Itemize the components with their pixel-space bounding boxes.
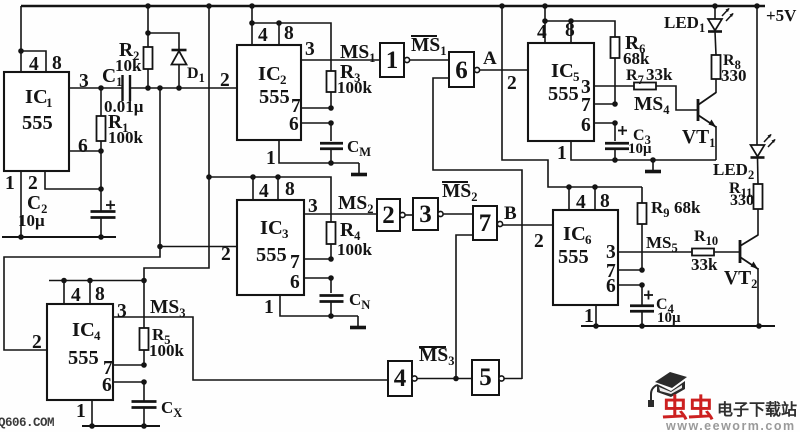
wire trigger to IC4 pin2 (4, 247, 160, 351)
svg-text:100k: 100k (337, 78, 373, 97)
svg-text:7: 7 (290, 252, 300, 273)
svg-text:4: 4 (258, 25, 268, 46)
svg-text:IC: IC (563, 223, 586, 245)
svg-text:A: A (483, 48, 497, 69)
wire IC4 pin7 (113, 364, 144, 366)
wire IC5 pin1/ground/VT1 emitter (571, 141, 716, 160)
ground rail of IC4 (82, 425, 160, 427)
svg-text:33k: 33k (691, 255, 718, 274)
resistor R10 33k (horizontal) (692, 249, 714, 256)
ground rail of IC1 (2, 236, 116, 238)
wire IC5 pin3 (594, 85, 634, 87)
svg-text:4: 4 (394, 365, 407, 392)
resistor R8 330 (712, 55, 721, 79)
wire IC1 pin2 (45, 171, 101, 189)
wire IC1 pin3 output (69, 87, 122, 89)
wire pin8 bracket (21, 51, 46, 72)
ground rail of IC6 (581, 325, 775, 327)
svg-text:2: 2 (507, 73, 517, 94)
gate 3 (inverter) (413, 198, 438, 230)
wire pin4 drop (20, 51, 22, 72)
node pin3/R1 (98, 85, 104, 91)
diode D1 (172, 49, 187, 52)
IC3 555 timer (237, 200, 304, 295)
gate 7 (NAND RS) (473, 206, 497, 240)
svg-text:2: 2 (32, 332, 42, 353)
node: rail junction dots (145, 3, 151, 9)
gate 4 (inverter) (388, 361, 412, 396)
svg-text:8: 8 (565, 20, 575, 41)
wire IC3 pin6 (304, 277, 331, 279)
wire R1 node down to C2 (100, 151, 102, 211)
svg-text:1: 1 (76, 401, 86, 422)
wire IC1 pins 4/8 to +5V rail (20, 6, 22, 51)
svg-text:IC: IC (72, 319, 95, 341)
svg-text:100k: 100k (149, 341, 185, 360)
svg-text:6: 6 (290, 272, 300, 293)
resistor R5 100k (143, 281, 145, 329)
svg-text:IC: IC (551, 60, 574, 82)
wire gate5 out to feedback riser (504, 378, 522, 380)
capacitor CM (330, 123, 332, 141)
svg-text:3: 3 (282, 226, 289, 241)
svg-text:2: 2 (28, 173, 38, 194)
wire gate7 2nd input from gate4 output (456, 235, 473, 379)
wire IC4 pin1 (91, 400, 93, 426)
trigger node wire (C1/R2/D1 to IC2 pin2) (148, 87, 237, 89)
resistor R2 10k (144, 47, 153, 69)
svg-text:6: 6 (102, 375, 112, 396)
transistor VT2 (739, 240, 742, 263)
wire gate4 out MS3bar (417, 378, 472, 380)
resistor R6 68k (611, 37, 620, 58)
svg-text:3: 3 (305, 39, 315, 60)
svg-text:10μ: 10μ (628, 141, 652, 157)
capacitor CX (143, 382, 145, 401)
wire IC6 pin7 (618, 269, 642, 271)
wire VT2 collector to R11 (757, 209, 759, 236)
svg-text:1: 1 (584, 306, 594, 327)
svg-text:2: 2 (534, 231, 544, 252)
wire node A to IC5 pin2 (480, 69, 528, 71)
wire gate3 out MS2bar (443, 213, 473, 215)
transistor VT1 (697, 99, 700, 121)
svg-text:IC: IC (258, 63, 281, 85)
svg-text:1: 1 (264, 297, 274, 318)
svg-text:6: 6 (78, 136, 88, 157)
svg-text:5: 5 (573, 69, 580, 84)
ground (IC2/CM) (331, 162, 359, 164)
svg-text:10μ: 10μ (18, 211, 45, 230)
LED1 (714, 6, 716, 19)
wire to IC3 pin2 (160, 246, 237, 248)
svg-text:www.eeworm.com: www.eeworm.com (665, 419, 796, 432)
capacitor C3 10u (614, 123, 616, 141)
svg-text:Q606.COM: Q606.COM (0, 416, 54, 430)
wire trigger node down to IC3 pin2 (159, 88, 161, 247)
wire gate6 2nd input from gate5 (433, 78, 522, 379)
wire to D1 top (148, 33, 179, 50)
svg-text:B: B (504, 203, 517, 224)
IC2 555 timer (237, 45, 301, 140)
wire IC3 4/8 rail (209, 177, 331, 222)
svg-text:1: 1 (46, 95, 53, 110)
wire IC4 pin6 (113, 381, 144, 383)
resistor R4 100k (327, 222, 336, 244)
svg-text:68k: 68k (674, 198, 701, 217)
wire VT1 collector to R8 (715, 79, 717, 93)
svg-text:6: 6 (289, 114, 299, 135)
wire IC3 pin7 (304, 258, 331, 260)
wire IC3 pin3 output MS2 (304, 213, 377, 215)
svg-text:100k: 100k (108, 128, 144, 147)
svg-text:6: 6 (581, 115, 591, 136)
wire IC1 pin6 (69, 150, 101, 152)
svg-text:4: 4 (71, 285, 81, 306)
resistor R3 100k (327, 71, 336, 92)
LED2 (756, 6, 758, 145)
gate 6 (NAND RS) (449, 52, 474, 87)
svg-text:5: 5 (479, 364, 492, 391)
svg-text:3: 3 (606, 242, 616, 263)
svg-text:IC: IC (25, 86, 48, 108)
capacitor CN (330, 278, 332, 293)
svg-text:4: 4 (94, 328, 101, 343)
wire pin8 drop (278, 23, 280, 45)
svg-text:+5V: +5V (766, 6, 797, 25)
resistor R11 330 (754, 184, 763, 209)
svg-text:4: 4 (29, 54, 39, 75)
wire pin4 pin8 drops IC6 (568, 187, 570, 210)
wire VT1 emitter down (715, 126, 717, 160)
svg-text:8: 8 (284, 23, 294, 44)
svg-text:6: 6 (606, 276, 616, 297)
svg-text:4: 4 (576, 192, 586, 213)
svg-text:555: 555 (22, 112, 53, 134)
svg-text:8: 8 (285, 179, 295, 200)
IC4 555 timer (47, 304, 113, 400)
+5V supply rail (21, 5, 765, 7)
gate 2 (inverter) (377, 199, 400, 231)
wire 4/8 tie to R3 (252, 23, 331, 71)
resistor R1 100k (100, 88, 102, 116)
wire IC5 4/8 to rail (544, 6, 546, 43)
svg-text:3: 3 (117, 301, 127, 322)
wire node B to IC6 pin2 (503, 224, 553, 226)
svg-text:4: 4 (537, 22, 547, 43)
svg-text:555: 555 (558, 246, 589, 268)
svg-text:555: 555 (259, 86, 290, 108)
wire R7 to VT1 base (656, 86, 698, 110)
svg-text:1: 1 (5, 173, 15, 194)
wire gate1 out MS1bar (410, 59, 449, 61)
svg-text:10μ: 10μ (657, 310, 681, 326)
wire gate2-gate3 (405, 214, 413, 216)
wire IC5 pin7 (594, 103, 615, 105)
LED2 arrows (764, 135, 771, 143)
IC6 555 timer (553, 210, 618, 305)
label MS3 bar (419, 346, 446, 348)
capacitor C4 10u (641, 285, 643, 305)
gate 5 (inverter) (472, 360, 499, 395)
wire IC3 pin1 (280, 295, 331, 316)
svg-text:1: 1 (386, 47, 399, 74)
svg-text:6: 6 (585, 232, 592, 247)
IC5 555 timer (528, 43, 594, 141)
ground (IC5) (652, 160, 654, 170)
svg-text:10k: 10k (115, 56, 142, 75)
wire IC2 pin1 (279, 140, 331, 163)
wire pin4 pin8 drops (252, 177, 254, 200)
wire IC4 pin3 output MS3 to gate 4 (113, 317, 388, 380)
svg-text:4: 4 (259, 181, 269, 202)
svg-text:2: 2 (220, 70, 230, 91)
label MS2 bar (442, 181, 468, 183)
gate 1 (inverter) (380, 43, 404, 77)
capacitor C2 10u electrolytic (91, 210, 116, 213)
svg-text:330: 330 (730, 192, 754, 209)
svg-text:3: 3 (419, 201, 432, 228)
wire IC1 pin1 to ground rail (20, 171, 22, 237)
wire IC2 pin7 (301, 107, 331, 109)
svg-text:电子下载站: 电子下载站 (717, 400, 797, 419)
node IC1 4/8 tie (18, 48, 24, 54)
wire IC6 pin6 (618, 284, 642, 286)
svg-text:6: 6 (455, 57, 468, 84)
resistor R9 68k (641, 187, 643, 203)
label MS1 bar (411, 35, 437, 37)
svg-text:8: 8 (95, 284, 105, 305)
svg-text:7: 7 (581, 95, 591, 116)
wire +5V riser to IC6 rail (502, 6, 642, 187)
wire IC2 4/8 to rail (251, 6, 253, 45)
wire IC2 pin3 output MS1 (301, 59, 380, 61)
wire VT2 emitter to ground rail (757, 268, 759, 326)
wire +5V branch down to IC3/IC4 (144, 6, 209, 281)
watermark logo: graduation cap (648, 372, 687, 407)
wire IC6 pin1 (595, 305, 597, 326)
wire IC2 pin6 (301, 122, 331, 124)
svg-text:2: 2 (382, 202, 395, 229)
wire 4/8 tie to R6 (545, 21, 615, 37)
LED1 arrows (722, 9, 729, 17)
wire IC6 pin3 MS5 (618, 251, 692, 253)
svg-text:33k: 33k (646, 65, 673, 84)
wire pin4 pin8 drops (63, 281, 65, 305)
wire R10 to VT2 base (714, 251, 740, 253)
svg-text:8: 8 (600, 191, 610, 212)
svg-text:555: 555 (68, 347, 99, 369)
svg-text:100k: 100k (337, 240, 373, 259)
wire IC4 4/8 rail (49, 280, 145, 282)
svg-text:IC: IC (260, 217, 283, 239)
svg-text:330: 330 (721, 66, 747, 85)
svg-text:555: 555 (256, 244, 287, 266)
svg-text:555: 555 (548, 83, 579, 105)
ground (IC3/CN) (331, 315, 358, 317)
svg-text:2: 2 (221, 244, 231, 265)
svg-text:7: 7 (479, 210, 492, 237)
svg-text:1: 1 (557, 143, 567, 164)
wire +5V drop to R2/D1 (147, 6, 149, 33)
svg-text:2: 2 (280, 72, 287, 87)
svg-text:8: 8 (52, 53, 62, 74)
resistor R7 33k (horizontal) (634, 83, 656, 90)
wire IC5 pin6 (594, 122, 615, 124)
svg-text:1: 1 (266, 148, 276, 169)
op... IC1 555 timer (4, 72, 69, 171)
capacitor C1 (121, 75, 123, 101)
svg-text:3: 3 (79, 71, 89, 92)
